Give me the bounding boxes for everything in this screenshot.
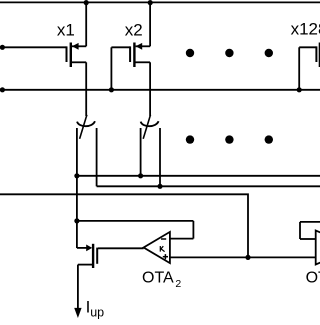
wire OTA3 feedback top xyxy=(300,221,320,223)
S1 contact arc xyxy=(77,121,95,126)
OTA2 kappa xyxy=(160,246,164,252)
wire S1 right throw down to bus2 xyxy=(96,128,98,186)
op-amp OTA2 xyxy=(144,232,170,263)
node bias rail left end dot xyxy=(0,87,5,92)
node junction S1 left throw on bus1 xyxy=(74,173,79,178)
node junction feedback on M3 source line xyxy=(74,218,79,223)
svg-text:x2: x2 xyxy=(125,21,143,40)
wire M3 source horizontal with PMOS arrow xyxy=(77,247,87,249)
wire OTA2 minus input xyxy=(170,238,193,240)
wire M1 drain xyxy=(72,61,86,63)
wire OTA2 feedback right vertical xyxy=(192,221,194,239)
node junction bus3 on OTA plus input line xyxy=(245,255,250,260)
wire M1 drain down to switch S1 xyxy=(85,62,87,116)
arrow Iup xyxy=(74,308,81,318)
ellipsis dots top row xyxy=(186,49,194,57)
svg-text:2: 2 xyxy=(175,278,181,290)
S2 lever xyxy=(143,115,150,139)
wire M3 drain down (Iup branch) xyxy=(77,265,79,309)
wire M2 drain down to switch S2 xyxy=(149,62,151,116)
OTA2 minus sign xyxy=(161,238,166,240)
wire M2 gate down to bias rail xyxy=(110,47,112,90)
M1 gate bar xyxy=(66,46,68,62)
wire M128 gate lead xyxy=(299,46,316,48)
node M1 gate left end dot xyxy=(0,45,5,50)
wire S1 left throw down (to bus1 and M3) xyxy=(76,128,78,248)
wire M1 gate lead xyxy=(2,46,67,48)
wire bus2 xyxy=(97,185,320,187)
wire OTA2 output to M3 gate xyxy=(98,247,144,249)
wire S2 right throw down to bus2 xyxy=(159,128,161,186)
switch S1 xyxy=(77,115,97,248)
svg-text:OTA: OTA xyxy=(306,269,320,286)
svg-text:OTA: OTA xyxy=(142,269,174,286)
wire M3 drain xyxy=(78,264,92,266)
wire OTA2 feedback top xyxy=(77,220,194,222)
node junction S2 right throw on bus2 xyxy=(157,184,162,189)
M1 channel bar xyxy=(70,43,72,68)
transistor M3 (output PMOS, mirrored) xyxy=(74,244,97,318)
S1 lever xyxy=(80,115,87,139)
wire OTA3 feedback left vertical xyxy=(299,222,301,239)
wire gate bias rail xyxy=(0,89,320,91)
svg-text:x128: x128 xyxy=(291,19,320,38)
S2 contact arc xyxy=(141,121,159,126)
OTA2 plus sign xyxy=(163,256,168,258)
node junction M2 source on VDD rail xyxy=(148,0,153,5)
M2 source wire with PMOS arrow xyxy=(136,45,151,47)
switch S2 xyxy=(141,115,160,187)
node junction M2 gate on bias rail xyxy=(109,87,114,92)
transistor M1 (x1 PMOS) xyxy=(0,2,86,116)
M128 gate bar xyxy=(315,46,317,62)
svg-text:x1: x1 xyxy=(57,21,75,40)
node junction S2 left throw on bus1 xyxy=(138,173,143,178)
M128 channel bar (clipped) xyxy=(319,43,320,68)
svg-text:up: up xyxy=(90,305,104,319)
M3 channel bar xyxy=(92,244,94,268)
M2 gate bar xyxy=(129,46,131,62)
wire M1 source up to VDD xyxy=(85,2,87,46)
M1 source wire with PMOS arrow xyxy=(72,45,86,47)
M3 gate bar xyxy=(96,248,98,264)
wire S2 left throw down to bus1 xyxy=(140,128,142,176)
wire M2 gate lead xyxy=(111,46,130,48)
transistor M2 (x2 PMOS) xyxy=(111,2,150,116)
node junction M1 source on VDD rail xyxy=(84,0,89,5)
wire M2 drain xyxy=(135,61,150,63)
wire bus3 xyxy=(0,194,248,257)
wire OTA3 minus input xyxy=(300,238,316,240)
transistor M128 (x128 PMOS, clipped at right edge) xyxy=(299,43,320,90)
ellipsis dots second row xyxy=(186,135,194,143)
wire VDD top rail xyxy=(0,1,320,3)
op-amp OTA3 (clipped at right edge) xyxy=(316,231,320,265)
wire M2 source up to VDD xyxy=(149,2,151,46)
wire M128 gate down to bias rail xyxy=(298,47,300,90)
wire OTA plus input line xyxy=(170,256,316,258)
node junction M128 gate on bias rail xyxy=(297,87,302,92)
wire bus1 xyxy=(77,175,320,177)
M2 channel bar xyxy=(133,43,135,68)
